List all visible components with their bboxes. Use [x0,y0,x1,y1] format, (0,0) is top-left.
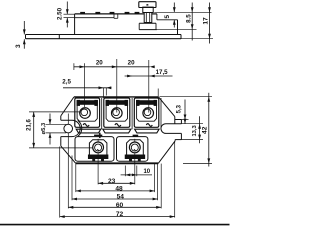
svg-text:8.5: 8.5 [186,14,193,23]
body left edge below slot [60,137,62,146]
svg-text:20: 20 [96,60,103,67]
dim 17 [209,3,211,44]
dim 21.6 [33,112,35,148]
dim dia 5.3 [49,114,51,125]
dim 2.5 line/arrows [63,87,112,89]
body left edge above slot [60,116,62,120]
pocket bottom ledge [103,129,131,133]
side view: baseplate right end [180,35,182,39]
dim 5 [173,3,175,13]
inner bucket [77,101,97,121]
right side ext: ledge [181,119,188,121]
right ear ledge corner [174,117,176,124]
body bottom-left chamfer [61,146,76,163]
side view: ear tab step [58,35,60,39]
bottom screw hole [93,142,104,153]
svg-text:48: 48 [115,185,123,192]
top terminal pad outline x134.3 [134,98,159,127]
screw: head mark [147,4,149,5]
bottom screw hole [129,142,140,153]
dim 2.50 (lid lip) ext lines [64,13,75,15]
terminal base bar [88,155,108,159]
clamp bar [77,101,97,105]
right ext 13.3 bottom [181,139,203,141]
screw: washer [143,7,153,12]
side view: case top edge (left of nut) [75,13,145,15]
body right edge above slot [180,120,182,124]
left mounting hole circle [64,124,73,133]
svg-text:60: 60 [116,202,124,209]
pocket divider line gap1 [101,98,103,129]
bottom terminal pocket [75,137,114,162]
side view: baseplate top line [26,34,182,36]
side view: ledge line to right edge [157,19,178,21]
terminal clamp house [89,140,107,156]
side view: case right edge [177,20,179,35]
screw inner circle [113,109,120,116]
side view: step right of nut down to ledge [156,14,158,20]
svg-text:17,5: 17,5 [156,69,169,76]
svg-text:3: 3 [15,44,22,48]
dim 8.5 [191,3,193,41]
foot [93,159,95,162]
screw: nut body [144,13,152,23]
screw slot tick [134,149,136,151]
terminal screw hole [143,108,154,119]
dim 13.3 [199,116,201,143]
side view: lid notch [113,14,115,18]
svg-text:2.50: 2.50 [57,7,64,20]
svg-text:42: 42 [202,126,209,134]
clamp bar [106,101,127,105]
body right edge below slot [180,133,182,139]
screw inner circle [81,109,88,116]
svg-text:5: 5 [164,15,171,19]
foot [101,159,103,162]
svg-text:54: 54 [117,194,125,201]
ac terminal tilde mark [115,124,121,127]
svg-text:5,3: 5,3 [177,104,183,113]
side view: case top edge (right of nut) [152,13,157,15]
right ext slot top [181,123,203,125]
svg-text:2,5: 2,5 [62,78,71,85]
right stack ext line top (washer level) [154,11,211,13]
terminal block left edge [138,23,140,29]
right side ext: body top [160,96,213,98]
side view: case lid lip line [75,17,114,19]
dim 8.5 ext line [157,28,197,30]
baseline at bottom of figure [0,224,230,226]
terminal screw hole [80,108,91,119]
left slot boss arc [78,120,82,136]
dim 48 [76,190,155,192]
dim 2.5 ext verticals [103,88,105,98]
plus sign [94,134,102,136]
pocket bottom ledge [76,129,101,133]
dim 60 [68,206,161,208]
right mounting slot [161,124,181,134]
svg-text:21,6: 21,6 [27,119,33,131]
terminal block seat line [139,22,156,24]
screw inner circle [144,109,151,116]
terminal screw hole [112,108,123,119]
dim 3 (baseplate thickness) [23,21,25,34]
ac terminal tilde mark [146,124,152,127]
dim 54 [72,198,158,200]
svg-text:20: 20 [128,60,135,67]
side view: baseplate left end [25,35,27,39]
svg-text:10: 10 [143,169,150,175]
dim 20 / 20 line [74,66,150,68]
top terminal pad outline x74.8 [75,98,100,127]
dim 21.6 ext lines [29,111,80,113]
minus sign [133,135,139,137]
screw: nut facet lines [145,13,147,23]
svg-text:72: 72 [116,211,124,218]
foot [138,159,140,162]
svg-text:ø5,3: ø5,3 [41,122,47,134]
dim 72 [60,216,175,218]
dim 2.50 line + arrows [66,2,68,15]
terminal block right edge [155,23,157,29]
body top-left chamfer [61,97,74,116]
dim 10 [121,174,152,176]
svg-text:13,3: 13,3 [192,124,198,136]
body top-right chamfer [159,97,175,117]
pocket divider line gap2 [131,98,133,129]
body bottom edge (thick) [76,162,159,164]
left mounting slot outline [61,120,80,136]
ac terminal tilde mark [83,124,89,127]
side view: case left edge [74,14,76,35]
inner bucket [106,101,127,121]
screw: head [139,2,156,8]
clamp bar [137,101,157,105]
dim 17 ext line [181,38,213,40]
pocket bottom ledge [135,129,160,133]
ext tick at top-right corner [157,89,159,97]
dim dia 5.3 ext lines [46,123,67,125]
svg-text:23: 23 [108,178,116,185]
body right step notch [175,139,181,141]
ext verticals bottom stack [59,147,61,218]
side view: baseplate bottom line [26,38,182,40]
top terminal pad outline x103.8 [104,98,130,127]
dim 5.3 right [184,100,186,124]
foot [129,159,131,162]
terminal base bar [125,155,145,159]
dim 23 [98,182,135,184]
dim 17.5 [125,75,173,77]
screw slot tick [97,149,99,151]
pocket right closing line [160,98,162,129]
inner bucket [137,101,157,121]
tick at pad1 left edge on row1 [73,63,75,70]
svg-text:17: 17 [202,17,209,25]
side view: terminal clamp bumps on top edge [81,12,85,14]
terminal clamp house [127,140,144,156]
body bottom-right chamfer [158,141,175,163]
module body outline: top edge [74,96,159,98]
bottom terminal pocket [117,137,148,162]
dim 42 [208,93,210,167]
right ext: body bottom [183,162,212,164]
terminal block lower line [139,29,157,31]
top row ext verticals (terminal centers) [84,63,86,107]
